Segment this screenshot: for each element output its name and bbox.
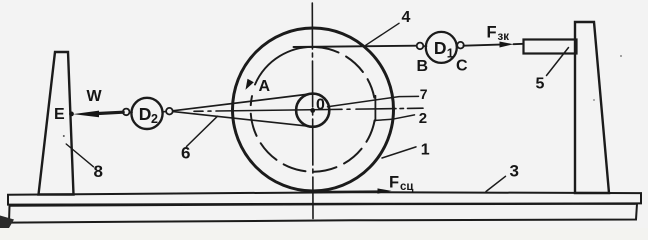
upper cord from D2 hook to hub	[170, 94, 311, 111]
lower cord 6 from D2 hook to hub	[170, 111, 309, 126]
svg-text:6: 6	[181, 144, 190, 163]
svg-text:1: 1	[421, 142, 430, 159]
svg-text:сц: сц	[400, 181, 413, 193]
hub center dot O	[310, 108, 315, 113]
Fzk arrowhead	[500, 42, 514, 48]
wheel inner dashed circle 2 (rim), lower part	[251, 96, 375, 172]
leader line 2	[375, 115, 414, 121]
arrowhead at A	[246, 79, 254, 90]
svg-text:8: 8	[94, 162, 103, 181]
leader line 3	[486, 176, 506, 191]
left post 8	[39, 52, 74, 195]
dynamometer D2	[131, 98, 162, 129]
svg-text:C: C	[456, 58, 468, 75]
svg-text:7: 7	[420, 86, 428, 102]
leader line 7	[328, 96, 419, 106]
D1 right hook	[457, 42, 464, 49]
svg-text:D: D	[139, 104, 152, 124]
right post	[575, 22, 609, 193]
svg-text:4: 4	[402, 9, 411, 26]
leader line 6	[187, 116, 218, 146]
svg-text:2: 2	[151, 112, 158, 126]
wheel outer circle 1	[233, 28, 394, 191]
svg-text:E: E	[54, 106, 65, 123]
D1 left hook	[423, 45, 427, 47]
svg-text:W: W	[87, 88, 103, 105]
scan speck near right post	[593, 99, 595, 101]
D2 left hook	[129, 111, 132, 113]
D2 right hook	[162, 110, 166, 113]
leader line 8	[66, 144, 93, 167]
svg-text:2: 2	[419, 110, 427, 127]
svg-text:3: 3	[510, 162, 519, 181]
svg-text:F: F	[389, 173, 399, 191]
clamp bracket 5 on right post	[524, 40, 577, 54]
dynamometer D1	[426, 32, 457, 63]
svg-text:D: D	[434, 38, 447, 58]
scan speck on left post	[63, 135, 65, 137]
svg-text:F: F	[487, 24, 497, 42]
leader line 1	[382, 147, 416, 158]
svg-text:B: B	[417, 58, 429, 75]
scan speck right of post	[620, 55, 622, 57]
Fzk arrow shaft	[464, 45, 501, 46]
svg-text:5: 5	[536, 76, 545, 93]
bottom-left corner smudge	[0, 216, 14, 229]
vertical centerline of wheel	[311, 3, 314, 219]
leader line 4	[366, 23, 399, 45]
svg-text:1: 1	[447, 46, 454, 60]
Fsc arrow shaft (friction force at contact)	[312, 190, 378, 193]
svg-text:A: A	[259, 78, 271, 95]
rim section mark	[374, 96, 376, 121]
curved arrow to point A on rim	[255, 47, 316, 85]
W arrowhead	[73, 111, 99, 118]
cord 4 from rim top to D1	[294, 46, 418, 47]
platform bottom board 3	[9, 204, 637, 223]
wheel inner dashed circle 2 (rim), upper-right quarter	[316, 47, 374, 98]
svg-text:0: 0	[316, 97, 325, 114]
W arrow shaft from D2 to post	[98, 112, 123, 113]
horizontal centerline of wheel, right part	[330, 108, 423, 109]
hub circle 7	[296, 94, 329, 127]
point E dot	[69, 112, 74, 117]
svg-text:зк: зк	[498, 31, 510, 43]
platform top board (rail)	[8, 192, 641, 204]
leader line 5	[547, 48, 569, 76]
horizontal centerline of wheel, left part	[194, 110, 330, 112]
Fsc arrowhead	[378, 188, 392, 193]
